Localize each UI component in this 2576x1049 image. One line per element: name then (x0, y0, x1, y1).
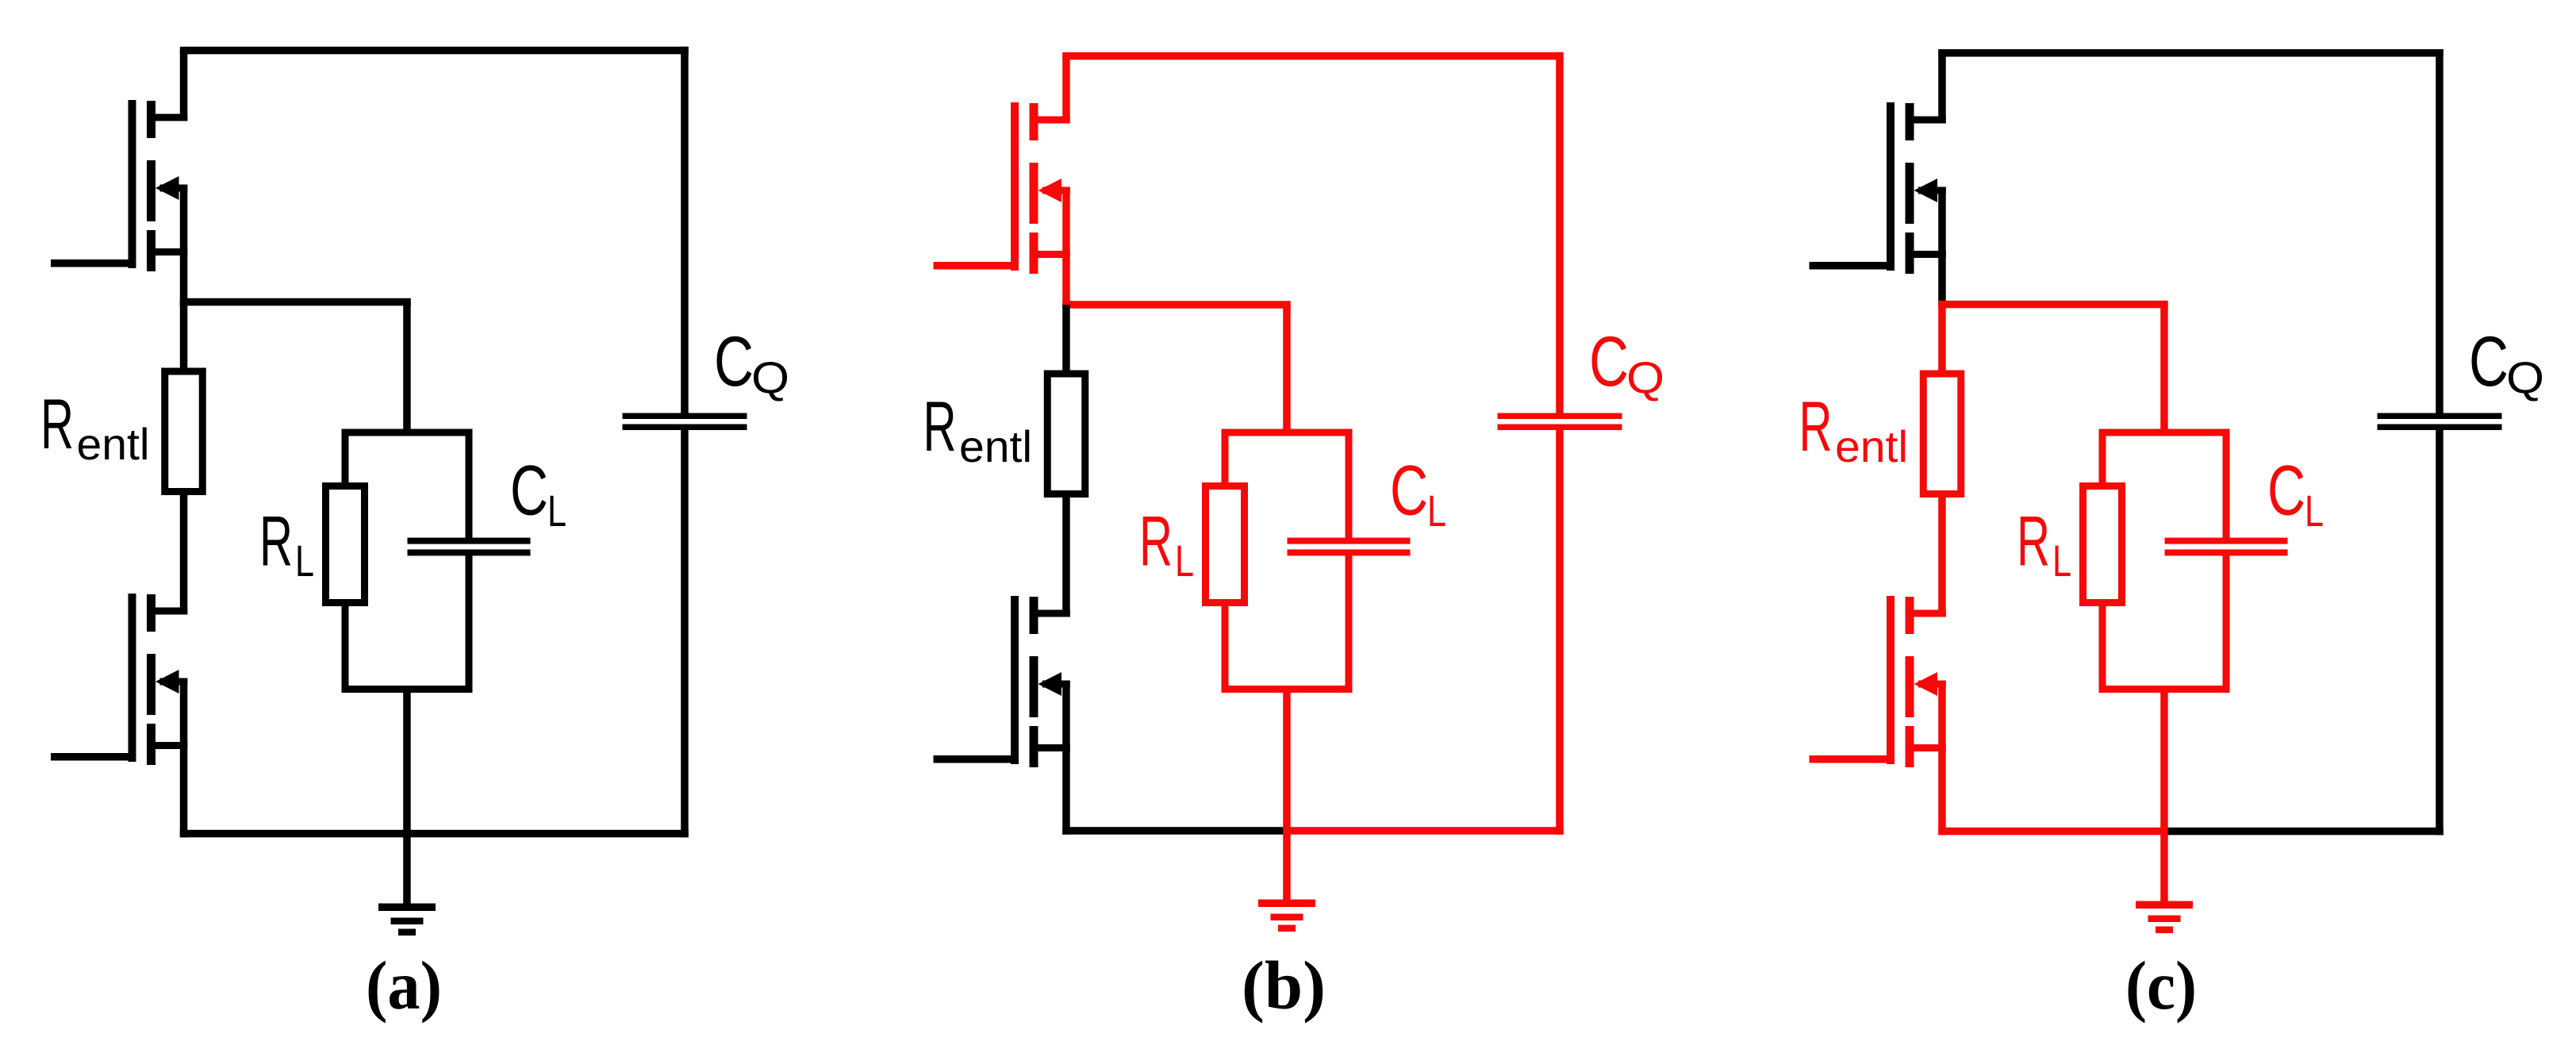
label RL (panel a) (259, 501, 314, 586)
wire: Q1 gate lead (panel c) (1810, 262, 1895, 270)
wire: right rail lower segment (panel c) (2436, 430, 2444, 835)
wire: bottom rail left segment (panel b) (1062, 827, 1287, 835)
label CQ (panel a) (714, 321, 789, 402)
wire: node A to Rentl (panel c) (1938, 305, 1946, 376)
wire: Rentl to Q2 drain (panel a) (180, 492, 188, 615)
wire: RL-CL loop bottom side (panel c) (2099, 686, 2230, 693)
svg-text:C: C (510, 451, 548, 530)
resistor Rentl (panel c) (1923, 374, 1961, 494)
svg-text:L: L (2305, 486, 2324, 536)
svg-text:C: C (714, 321, 754, 401)
wire: RL-CL loop right side lower (panel b) (1346, 553, 1353, 693)
ground (panel a) (378, 904, 436, 936)
wire: load branch drop to RL-CL loop (panel b) (1283, 305, 1291, 436)
wire: node A to Rentl (panel a) (180, 302, 188, 374)
label CL (panel b) (1390, 451, 1446, 536)
wire: Q1 gate lead (panel a) (51, 259, 136, 267)
wire: load loop to ground stem (panel a) (403, 686, 411, 907)
wire: node A to Rentl (panel b) (1062, 305, 1070, 375)
wire: Q1 drain to top rail (panel c) (1938, 53, 1946, 124)
svg-text:R: R (40, 384, 74, 463)
wire: Q2 gate lead (panel a) (51, 753, 136, 761)
svg-text:Q: Q (1626, 352, 1664, 402)
label CQ (panel b) (1589, 321, 1664, 402)
capacitor CQ (panel b) (1498, 413, 1622, 431)
transistor Q2 lower p-MOSFET (panel c) (1887, 596, 1946, 767)
svg-text:L: L (547, 486, 566, 536)
wire: Rentl to Q2 drain (panel b) (1062, 494, 1070, 617)
wire: RL-CL loop bottom side (panel b) (1222, 686, 1353, 693)
node A / wire from Q1 source to load branch (panel a) (180, 298, 411, 306)
svg-text:Q: Q (751, 352, 789, 402)
wire: right rail lower segment (panel a) (681, 430, 689, 837)
capacitor CL (panel b) (1288, 538, 1411, 556)
capacitor CL (panel c) (2165, 538, 2288, 556)
wire: RL-CL loop bottom side (panel a) (342, 686, 473, 693)
wire: load branch drop to RL-CL loop (panel c) (2160, 305, 2168, 436)
wire: Q1 source down to node A (panel b) (1062, 187, 1070, 309)
svg-text:R: R (2017, 501, 2050, 581)
wire: RL-CL loop top side (panel b) (1222, 429, 1353, 436)
wire: RL-CL loop left side (panel c) (2099, 429, 2106, 694)
wire: Q2 gate lead (panel b) (934, 755, 1019, 763)
wire: bottom rail left segment (panel a) (180, 830, 407, 838)
svg-text:(c): (c) (2125, 947, 2197, 1024)
wire: load branch drop to RL-CL loop (panel a) (403, 302, 411, 436)
wire: RL-CL loop right side upper (panel b) (1346, 429, 1353, 541)
resistor RL (panel c) (2083, 486, 2122, 603)
wire: RL-CL loop left side (panel a) (342, 429, 349, 694)
svg-text:Q: Q (2506, 352, 2544, 402)
wire: Q2 source down to bottom rail (panel b) (1062, 681, 1070, 835)
capacitor CL (panel a) (408, 538, 531, 556)
wire: top rail (panel c) (1938, 49, 2444, 57)
label Rentl (panel a) (40, 384, 150, 469)
svg-text:R: R (1139, 501, 1173, 581)
wire: RL-CL loop left side (panel b) (1222, 429, 1229, 694)
transistor Q1 upper p-MOSFET (panel a) (129, 100, 188, 271)
label CL (panel c) (2267, 451, 2324, 536)
svg-text:L: L (2052, 536, 2071, 586)
wire: bottom rail right segment (panel a) (407, 830, 689, 838)
svg-text:L: L (295, 536, 314, 586)
resistor Rentl (panel a) (165, 371, 203, 492)
wire: Rentl to Q2 drain (panel c) (1938, 494, 1946, 617)
wire: RL-CL loop right side lower (panel a) (466, 553, 473, 693)
wire: top rail (panel b) (1062, 52, 1564, 60)
label CL (panel a) (510, 451, 566, 536)
wire: Q1 source down to node A (panel c) (1938, 187, 1946, 309)
ground (panel c) (2136, 901, 2193, 934)
wire: Q1 drain to top rail (panel b) (1062, 56, 1070, 124)
svg-text:R: R (1799, 386, 1833, 466)
wire: bottom rail right segment (panel c) (2164, 828, 2444, 836)
label CQ (panel c) (2469, 321, 2544, 402)
wire: RL-CL loop right side upper (panel a) (466, 429, 473, 541)
wire: Q2 source down to bottom rail (panel a) (180, 678, 188, 838)
wire: Q1 gate lead (panel b) (934, 262, 1019, 270)
resistor Rentl (panel b) (1047, 374, 1085, 494)
node A / wire from Q1 source to load branch (panel c) (1938, 301, 2168, 309)
svg-text:L: L (1427, 486, 1446, 536)
resistor RL (panel a) (326, 486, 365, 603)
wire: bottom rail left segment (panel c) (1938, 828, 2164, 836)
wire: load loop to ground stem (panel b) (1283, 686, 1291, 903)
label RL (panel b) (1139, 501, 1194, 586)
wire: right rail upper segment (panel c) (2436, 49, 2444, 413)
ground (panel b) (1258, 900, 1315, 932)
wire: bottom rail right segment (panel b) (1287, 827, 1564, 835)
svg-text:entl: entl (1835, 421, 1908, 471)
svg-text:L: L (1175, 536, 1194, 586)
label Rentl (panel b) (923, 386, 1033, 471)
transistor Q1 upper p-MOSFET (panel c) (1887, 102, 1946, 274)
svg-text:entl: entl (959, 421, 1032, 471)
resistor RL (panel b) (1206, 486, 1245, 603)
wire: RL-CL loop top side (panel a) (342, 429, 473, 436)
capacitor CQ (panel c) (2378, 413, 2502, 431)
transistor Q1 upper p-MOSFET (panel b) (1011, 102, 1070, 274)
svg-text:R: R (259, 501, 293, 581)
wire: Q2 source down to bottom rail (panel c) (1938, 681, 1946, 836)
wire: right rail upper segment (panel b) (1556, 52, 1564, 413)
wire: Q2 gate lead (panel c) (1810, 755, 1895, 763)
label Rentl (panel c) (1799, 386, 1909, 471)
svg-text:R: R (923, 386, 957, 466)
wire: Q1 drain to top rail (panel a) (180, 51, 188, 121)
svg-text:C: C (1390, 451, 1428, 530)
svg-text:C: C (2267, 451, 2305, 530)
wire: Q1 source down to node A (panel a) (180, 185, 188, 306)
svg-text:C: C (1589, 321, 1629, 401)
node A / wire from Q1 source to load branch (panel b) (1062, 301, 1291, 309)
svg-text:(b): (b) (1242, 947, 1326, 1024)
wire: right rail upper segment (panel a) (681, 47, 689, 413)
svg-text:C: C (2469, 321, 2509, 401)
wire: top rail (panel a) (180, 47, 689, 55)
svg-text:(a): (a) (366, 947, 442, 1024)
capacitor CQ (panel a) (623, 413, 747, 431)
transistor Q2 lower p-MOSFET (panel b) (1011, 596, 1070, 767)
wire: load loop to ground stem (panel c) (2160, 686, 2168, 905)
transistor Q2 lower p-MOSFET (panel a) (129, 594, 188, 765)
wire: RL-CL loop right side lower (panel c) (2223, 553, 2230, 693)
wire: right rail lower segment (panel b) (1556, 430, 1564, 835)
wire: RL-CL loop right side upper (panel c) (2223, 429, 2230, 541)
label RL (panel c) (2017, 501, 2071, 586)
wire: RL-CL loop top side (panel c) (2099, 429, 2230, 436)
svg-text:entl: entl (77, 419, 150, 469)
